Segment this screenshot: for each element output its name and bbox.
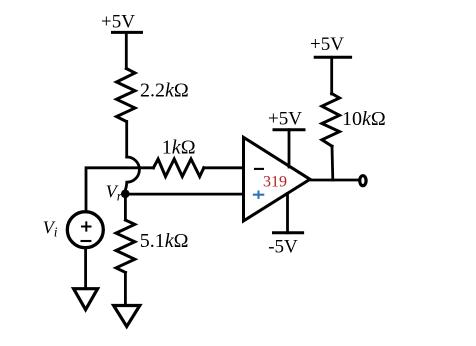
ground (under 5.1k) [114, 306, 140, 327]
svg-text:+5V: +5V [101, 11, 135, 32]
svg-text:5.1kΩ: 5.1kΩ [140, 230, 189, 252]
node Vr junction dot [121, 190, 130, 199]
power +5V bar (left rail) [113, 31, 142, 34]
svg-text:2.2kΩ: 2.2kΩ [140, 80, 189, 102]
resistor 1k zigzag [153, 159, 203, 177]
wire: Vi bottom to ground [84, 248, 87, 288]
svg-text:-5V: -5V [268, 237, 298, 258]
minus input marker [254, 168, 264, 170]
svg-text:319: 319 [263, 173, 287, 190]
resistor 10k zigzag [322, 94, 340, 147]
resistor 2.2k zigzag [117, 69, 136, 122]
wire hop over horizontal wire [125, 157, 139, 190]
wire: Vi top up and right to R 1k [86, 168, 153, 211]
power +5V bar (comparator) [274, 128, 304, 131]
wire: R 2.2k bottom to hop [125, 122, 128, 158]
wire: right +5V bar to R 10k top [330, 57, 333, 94]
wire: R 5.1k bottom to ground [124, 272, 127, 305]
power +5V bar (right rail) [315, 56, 350, 59]
power -5V bar [274, 231, 303, 234]
wire: +5V bar to comparator top edge [288, 130, 291, 167]
resistor 5.1k zigzag [116, 220, 135, 272]
output terminal circle [360, 176, 366, 186]
svg-text:1kΩ: 1kΩ [162, 137, 196, 159]
source Vi circle [67, 212, 103, 248]
wire: R 1k to comparator minus input [204, 166, 244, 169]
svg-text:+5V: +5V [310, 34, 344, 55]
svg-text:10kΩ: 10kΩ [342, 108, 386, 130]
wire: left +5V bar to R 2.2k top [125, 32, 128, 68]
comparator U1 LM319 triangle [244, 137, 311, 221]
wire: R 10k bottom to output node [331, 146, 335, 180]
wire: comparator output to terminal [309, 179, 359, 182]
wire: Vr node to comparator plus input [130, 193, 244, 196]
plus input marker [253, 191, 264, 199]
svg-text:+5V: +5V [268, 109, 302, 130]
ground (under Vi) [74, 289, 98, 310]
wire: comparator bottom edge to -5V bar [286, 194, 289, 233]
plus mark inside Vi [81, 221, 92, 231]
minus mark inside Vi [81, 240, 92, 242]
wire: Vr node to R 5.1k top [124, 194, 127, 220]
